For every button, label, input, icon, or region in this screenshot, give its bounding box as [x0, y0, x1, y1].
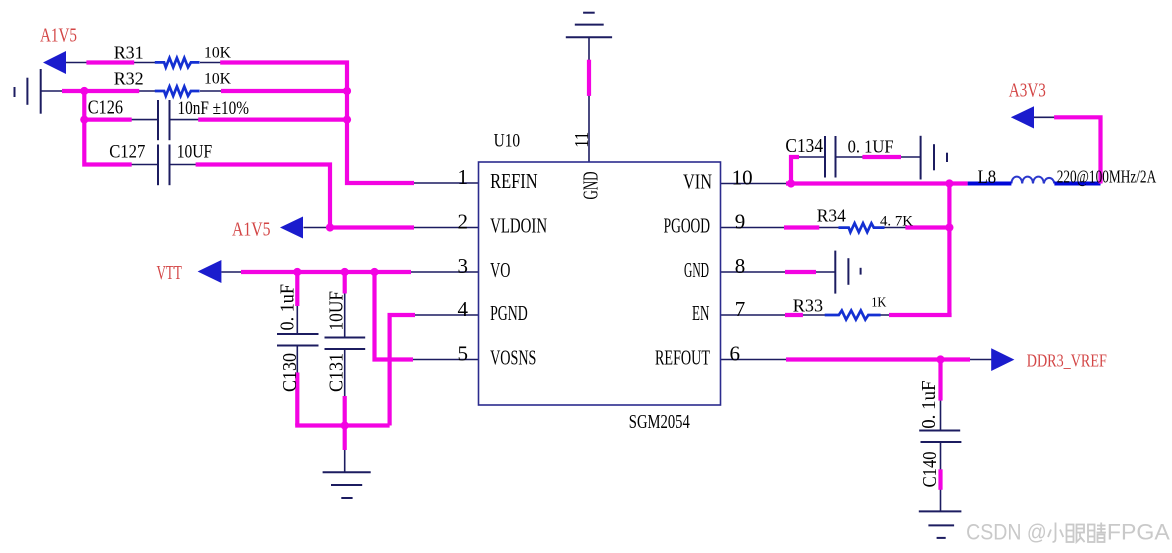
svg-text:PGOOD: PGOOD	[664, 213, 710, 237]
svg-text:10: 10	[732, 166, 753, 190]
svg-text:10UF: 10UF	[177, 142, 212, 163]
svg-text:R31: R31	[114, 43, 144, 63]
svg-text:SGM2054: SGM2054	[629, 411, 690, 433]
svg-text:GND: GND	[579, 172, 603, 200]
svg-text:EN: EN	[692, 301, 709, 325]
svg-text:5: 5	[458, 342, 469, 366]
svg-text:0. 1uF: 0. 1uF	[919, 380, 940, 429]
svg-text:10K: 10K	[204, 44, 231, 61]
svg-text:CSDN @: CSDN @	[966, 520, 1047, 545]
svg-text:A1V5: A1V5	[232, 218, 271, 240]
svg-text:1K: 1K	[871, 295, 886, 310]
svg-text:3: 3	[458, 254, 469, 278]
svg-text:VIN: VIN	[683, 169, 712, 193]
svg-text:REFIN: REFIN	[490, 169, 538, 193]
svg-text:REFOUT: REFOUT	[655, 345, 710, 369]
svg-text:4. 7K: 4. 7K	[880, 213, 913, 229]
svg-text:C130: C130	[279, 353, 301, 392]
svg-text:C126: C126	[88, 97, 123, 119]
svg-text:L8: L8	[978, 167, 997, 188]
svg-text:U10: U10	[494, 131, 520, 151]
svg-text:220@100MHz/2A: 220@100MHz/2A	[1057, 167, 1157, 187]
svg-text:4: 4	[458, 297, 469, 321]
svg-text:0. 1uF: 0. 1uF	[277, 284, 299, 331]
svg-text:VOSNS: VOSNS	[490, 345, 536, 369]
svg-text:1: 1	[458, 165, 469, 189]
svg-text:DDR3_VREF: DDR3_VREF	[1027, 351, 1107, 371]
svg-text:R34: R34	[817, 206, 846, 226]
svg-text:A1V5: A1V5	[40, 24, 77, 46]
svg-text:6: 6	[730, 342, 741, 366]
svg-text:VO: VO	[490, 258, 510, 282]
svg-text:9: 9	[735, 210, 746, 234]
svg-text:R33: R33	[793, 295, 823, 315]
svg-text:R32: R32	[114, 69, 144, 89]
svg-text:A3V3: A3V3	[1009, 80, 1046, 102]
svg-text:2: 2	[458, 210, 469, 234]
svg-text:C131: C131	[325, 353, 347, 392]
svg-text:PGND: PGND	[490, 301, 528, 325]
svg-text:7: 7	[735, 297, 746, 321]
svg-text:10K: 10K	[204, 70, 231, 87]
svg-text:FPGA: FPGA	[1107, 520, 1170, 545]
svg-text:10UF: 10UF	[325, 291, 347, 331]
svg-text:C134: C134	[785, 135, 823, 157]
svg-text:VTT: VTT	[157, 263, 182, 284]
svg-text:VLDOIN: VLDOIN	[490, 213, 547, 237]
svg-text:8: 8	[735, 254, 746, 278]
svg-text:GND: GND	[684, 258, 709, 282]
svg-text:10nF ±10%: 10nF ±10%	[178, 98, 250, 119]
svg-text:C127: C127	[109, 142, 145, 163]
svg-text:11: 11	[571, 132, 593, 148]
svg-text:C140: C140	[920, 451, 941, 487]
svg-text:0. 1UF: 0. 1UF	[848, 137, 894, 157]
